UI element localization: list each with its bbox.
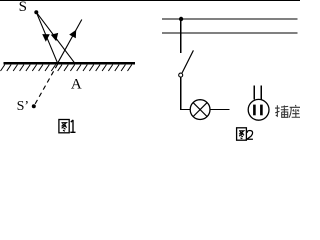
- caption 图1: [59, 120, 69, 133]
- label 插座: [275, 105, 288, 117]
- lamp L1: [190, 100, 210, 120]
- mirror hatching: [1, 65, 132, 71]
- source point S: [34, 10, 38, 14]
- wire supply line L: [162, 18, 298, 20]
- junction on line L: [179, 17, 183, 21]
- wire supply line N: [162, 32, 298, 34]
- wire incident ray 2 S to A: [36, 12, 75, 63]
- svg-text:S’: S’: [17, 99, 29, 114]
- wire incident ray 1 S to P1: [36, 12, 57, 63]
- wire switch to corner: [180, 77, 182, 109]
- caption 图2: [237, 128, 247, 140]
- image point S&apos;: [32, 104, 36, 108]
- wire lamp to right: [210, 109, 229, 111]
- wire dashed extension P1 to S&apos;: [34, 64, 58, 106]
- svg-text:S: S: [19, 0, 27, 15]
- socket prongs: [254, 86, 261, 100]
- switch pivot: [179, 73, 183, 77]
- wire corner to lamp: [180, 109, 191, 111]
- wire reflected ray P1 up-right: [58, 20, 82, 64]
- mirror surface: [4, 62, 136, 64]
- svg-text:A: A: [71, 77, 82, 93]
- wire drop from L to switch: [180, 19, 182, 53]
- switch S blade (open): [182, 50, 193, 73]
- socket symbol: [248, 99, 269, 120]
- top rule (scan crop line): [0, 0, 300, 1]
